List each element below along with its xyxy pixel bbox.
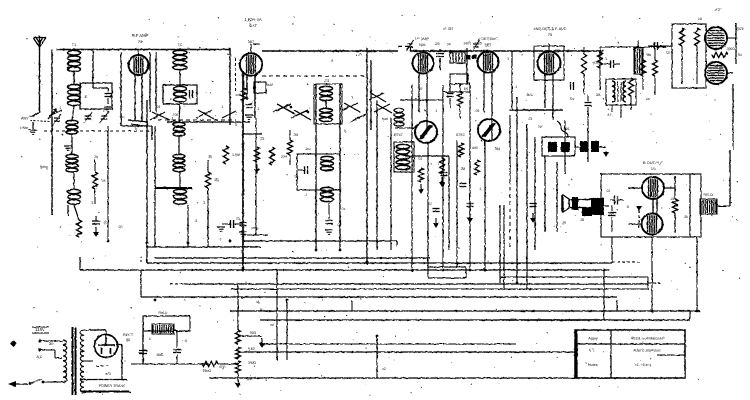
svg-text:6B7: 6B7 xyxy=(485,43,492,47)
node osc grid xyxy=(243,104,311,147)
wire bus y247 xyxy=(396,241,398,247)
svg-text:43: 43 xyxy=(738,53,742,57)
wire IFT2 stem xyxy=(484,51,492,140)
resistor R11 xyxy=(640,47,645,90)
svg-text:×1. ÷5 #!‘£: ×1. ÷5 #!‘£ xyxy=(635,363,651,367)
tube V8 label xyxy=(643,160,664,171)
wire vertical x147 xyxy=(146,100,148,263)
svg-text:gang: gang xyxy=(40,165,47,169)
svg-text:B OUTPUT: B OUTPUT xyxy=(643,160,664,165)
box power divider xyxy=(672,24,706,88)
resistor R4 xyxy=(235,88,287,174)
wire bus y241 xyxy=(146,241,397,247)
node diamond mark xyxy=(10,340,17,347)
coil L1 secondary xyxy=(68,84,81,105)
capacitor C6 xyxy=(245,105,260,120)
svg-text:T1: T1 xyxy=(72,43,76,47)
wire vertical x188mid xyxy=(188,205,208,247)
wire bus y311 to output xyxy=(696,237,698,311)
switch S1 wafers xyxy=(49,110,236,120)
svg-text:Notes: Notes xyxy=(588,363,598,367)
wire if vert extra xyxy=(500,205,504,289)
svg-text:457KC: 457KC xyxy=(455,133,465,137)
svg-text:2M: 2M xyxy=(294,133,299,137)
node POWER TRANS label xyxy=(99,384,126,388)
resistor R14 xyxy=(694,28,699,84)
coil L3 xyxy=(66,154,78,172)
wire V1 stem xyxy=(135,50,142,123)
wire vertical x377 xyxy=(371,60,377,250)
svg-text:.05: .05 xyxy=(156,105,161,109)
svg-text:60~: 60~ xyxy=(49,342,55,346)
svg-text:FIELD: FIELD xyxy=(158,311,168,315)
wire bus y297 xyxy=(141,256,617,297)
resistor R16 candohm xyxy=(628,48,643,96)
wire psu right xyxy=(727,23,736,150)
tube V6 (25Z5) xyxy=(705,27,727,49)
box osc lower xyxy=(297,154,340,190)
svg-text:.5M: .5M xyxy=(645,53,651,57)
svg-text:R.F AMP: R.F AMP xyxy=(132,33,149,38)
svg-text:8: 8 xyxy=(185,339,187,343)
node divider taps xyxy=(238,331,262,378)
svg-text:.05: .05 xyxy=(337,223,342,227)
tube V2 (6A7) xyxy=(240,40,262,76)
capacitor C2 xyxy=(92,216,108,225)
tube V1 label xyxy=(132,33,149,44)
svg-text:.02: .02 xyxy=(606,189,611,193)
wire R2 xyxy=(207,160,209,205)
svg-text:(250): (250) xyxy=(251,226,258,230)
svg-text:2 DET-AVC: 2 DET-AVC xyxy=(478,36,498,41)
svg-text:GND: GND xyxy=(20,126,29,130)
resistor R17 xyxy=(672,176,677,233)
svg-text:x2: x2 xyxy=(382,367,386,371)
svg-text:osc: osc xyxy=(306,147,311,151)
resistor R2 xyxy=(205,172,219,188)
svg-text:350Ω: 350Ω xyxy=(248,361,257,365)
svg-text:.02: .02 xyxy=(418,157,423,161)
transformer T5 output xyxy=(591,198,609,215)
svg-text:2M: 2M xyxy=(461,167,466,171)
svg-text:Apply: Apply xyxy=(588,337,598,341)
coil L9 xyxy=(321,156,334,170)
svg-text:1W: 1W xyxy=(538,125,543,129)
switch S4 power xyxy=(8,379,60,387)
node V1 grid cap xyxy=(128,120,148,126)
svg-text:20M: 20M xyxy=(281,155,288,159)
node 115V label xyxy=(32,327,49,333)
table row line1 xyxy=(575,343,685,345)
svg-text:8: 8 xyxy=(149,337,151,341)
coil T3a xyxy=(320,79,333,101)
coil T2 primary xyxy=(173,43,187,70)
svg-text:1407: 1407 xyxy=(463,42,471,46)
svg-text:.1: .1 xyxy=(251,101,254,105)
wire filter bottom xyxy=(131,330,209,364)
svg-text:fld: fld xyxy=(270,323,274,327)
svg-text:300Ω: 300Ω xyxy=(727,47,735,51)
svg-text:ANT: ANT xyxy=(21,116,30,121)
wire to divider xyxy=(218,363,238,365)
ground below C4 xyxy=(217,227,225,231)
svg-text:.1: .1 xyxy=(435,109,438,113)
svg-text:.1: .1 xyxy=(605,57,608,61)
resistor R21 xyxy=(418,146,478,194)
svg-text:.3: .3 xyxy=(91,201,94,205)
wire det thick xyxy=(509,109,563,111)
svg-text:.5M: .5M xyxy=(494,147,500,151)
svg-text:AVC: AVC xyxy=(527,93,534,97)
wire bus right drop xyxy=(612,237,652,311)
svg-text:JR: JR xyxy=(562,221,567,225)
wire conv bottom xyxy=(243,118,268,235)
coil T4b xyxy=(623,81,626,102)
resistor R18 xyxy=(202,361,226,373)
trimmer C11 xyxy=(406,40,413,51)
svg-text:.05: .05 xyxy=(236,217,241,221)
wire bus y262 dashes xyxy=(612,261,640,263)
svg-text:.1: .1 xyxy=(59,225,62,229)
svg-text:6A7: 6A7 xyxy=(249,23,257,28)
transformer T3 osc box xyxy=(314,84,342,124)
transformer T7 power primary xyxy=(63,340,67,382)
trimmer C1 xyxy=(53,114,61,125)
wire bus y289 xyxy=(230,288,648,290)
capacitor C9 xyxy=(239,223,258,237)
resistor R8 xyxy=(474,160,479,175)
transformer T4 box xyxy=(606,79,636,105)
wire plug xyxy=(37,339,63,359)
wire bus y320 xyxy=(260,319,690,321)
svg-text:.3: .3 xyxy=(203,201,206,205)
wire rect xyxy=(80,330,129,391)
tube V5 (75) xyxy=(538,52,561,75)
coil T4a xyxy=(612,81,615,102)
svg-text:1R: 1R xyxy=(214,178,219,182)
svg-text:80: 80 xyxy=(126,338,130,342)
svg-text:...: ... xyxy=(69,233,72,237)
wire left box xyxy=(93,50,156,127)
svg-text:5.5Ω: 5.5Ω xyxy=(248,347,256,351)
svg-text:.02: .02 xyxy=(294,175,299,179)
wire bus verticals xyxy=(108,103,700,360)
capacitor C22 IF xyxy=(447,83,454,108)
svg-text:JR: JR xyxy=(580,218,585,222)
tube V3 label xyxy=(415,36,430,47)
svg-text:.25: .25 xyxy=(670,197,675,201)
svg-text:75: 75 xyxy=(548,32,552,37)
wire bus y283 xyxy=(170,283,648,285)
svg-text:A.C.: A.C. xyxy=(37,355,44,359)
wire field xyxy=(717,150,730,206)
ground bottom xyxy=(235,378,241,388)
coil L5 xyxy=(174,86,187,101)
svg-text:6: 6 xyxy=(239,93,241,97)
capacitor C20 electrolytic xyxy=(139,345,147,364)
capacitor C3 xyxy=(104,88,112,111)
wire bus y270 xyxy=(80,257,610,270)
wire T2 top xyxy=(179,48,181,50)
svg-text:250Ω: 250Ω xyxy=(203,369,212,373)
svg-text:3: 3 xyxy=(507,57,509,61)
wire T7 taps xyxy=(60,330,131,392)
wire vertical x512 xyxy=(511,51,513,110)
wire top bus left xyxy=(56,49,230,51)
box IF lower coil xyxy=(394,142,414,172)
table col line xyxy=(610,330,612,378)
coil T1 primary xyxy=(68,43,81,72)
capacitor C17 xyxy=(604,60,620,68)
IF transformer IFT1 can xyxy=(413,53,434,74)
svg-text:T3: T3 xyxy=(325,79,329,83)
svg-text:.25: .25 xyxy=(260,137,265,141)
svg-text:19: 19 xyxy=(651,167,655,171)
wire gang dashes xyxy=(44,120,236,131)
svg-text:6D6: 6D6 xyxy=(419,43,426,47)
svg-text:.1: .1 xyxy=(219,237,222,241)
svg-text:3: 3 xyxy=(235,123,237,127)
trimmer C12 xyxy=(472,40,479,51)
wire V2 stem xyxy=(247,44,255,118)
wire det drops xyxy=(523,51,557,232)
tube V7 (43) xyxy=(705,62,727,84)
wire coilB links xyxy=(179,70,180,189)
svg-text:.1: .1 xyxy=(479,187,482,191)
svg-text:8MF: 8MF xyxy=(157,353,164,357)
wire if cross xyxy=(395,92,470,128)
svg-text:150: 150 xyxy=(434,42,440,46)
wire bus y283 dashes xyxy=(648,282,660,284)
svg-text:1R: 1R xyxy=(101,179,106,183)
wire filter vert xyxy=(142,331,144,364)
coil L12 xyxy=(396,144,410,169)
ground below L1 xyxy=(64,146,72,150)
wire bus y320 dashes xyxy=(428,267,618,320)
wire vertical x517 xyxy=(510,97,517,283)
capacitor C18 xyxy=(610,196,624,205)
wire psu left xyxy=(648,42,672,50)
svg-text:10: 10 xyxy=(666,51,670,55)
resistor R7 xyxy=(405,156,449,250)
svg-text:pad: pad xyxy=(382,117,388,121)
svg-text:.01: .01 xyxy=(428,202,433,206)
wire bus y311 xyxy=(230,310,700,312)
tube V10 label xyxy=(123,333,134,342)
svg-text:.25: .25 xyxy=(528,117,533,121)
wire bus y277 xyxy=(500,276,648,278)
variable capacitor C5 gang xyxy=(84,112,109,123)
table row line2 xyxy=(657,354,685,356)
wire vertical x367 xyxy=(366,48,368,264)
svg-text:23: 23 xyxy=(358,53,362,57)
wire vertical x391 xyxy=(390,118,392,250)
tube V3b circle xyxy=(415,121,437,143)
antenna xyxy=(33,36,46,112)
svg-text:.1: .1 xyxy=(221,105,224,109)
coil L10 xyxy=(321,187,334,201)
svg-text:.02: .02 xyxy=(118,225,123,229)
svg-text:90Ω: 90Ω xyxy=(250,331,257,335)
wire bottom left join xyxy=(68,205,96,220)
table frame xyxy=(575,330,685,378)
capacitor C24 xyxy=(467,195,474,223)
svg-text:1.5M: 1.5M xyxy=(232,153,240,157)
svg-text:.1: .1 xyxy=(515,85,518,89)
svg-text:50M: 50M xyxy=(267,83,274,87)
svg-text:.0001: .0001 xyxy=(172,113,180,117)
svg-text:6: 6 xyxy=(344,129,346,133)
wire bottom long xyxy=(209,336,612,378)
svg-text:.05: .05 xyxy=(341,207,346,211)
capacitor C10 xyxy=(436,48,477,84)
svg-text:.006: .006 xyxy=(563,127,569,131)
tube V4b circle xyxy=(478,119,500,141)
wire V5 stem xyxy=(545,44,553,120)
wire output internals xyxy=(628,174,690,237)
wire vertical x52 xyxy=(51,50,53,216)
tube V10 (80) rectifier xyxy=(95,335,118,358)
tube V9 (19) lower xyxy=(642,214,663,235)
coil T3b xyxy=(320,108,333,121)
table text r3c1 xyxy=(588,363,598,367)
svg-text:115V: 115V xyxy=(35,327,45,332)
transformer T7 core xyxy=(73,327,76,395)
svg-text:T2: T2 xyxy=(178,43,182,47)
resistor R19 divider xyxy=(235,284,240,373)
wire vertical x230 xyxy=(229,48,231,125)
wire osc links xyxy=(316,84,340,250)
wire vert x565 xyxy=(565,118,588,174)
capacitor C19 xyxy=(608,205,616,232)
tube V8 (19) upper xyxy=(642,177,664,199)
capacitor C25 xyxy=(530,204,537,224)
wire avc dash xyxy=(262,75,366,77)
svg-text:.5: .5 xyxy=(195,219,198,223)
svg-text:b: b xyxy=(135,127,137,131)
transformer T6 field xyxy=(700,193,717,214)
svg-text:A.F.: A.F. xyxy=(607,113,613,117)
wire IFT1 stem xyxy=(419,51,427,130)
switch S5 diagonals xyxy=(369,93,392,113)
svg-text:.1: .1 xyxy=(305,193,308,197)
svg-text:40111 mod Mæcon-P: 40111 mod Mæcon-P xyxy=(631,337,665,341)
svg-text:.1: .1 xyxy=(59,106,62,110)
node ANT label xyxy=(21,116,30,121)
wire vertical x523 xyxy=(527,124,535,290)
box V5 shield xyxy=(534,46,564,80)
svg-text:FIELD: FIELD xyxy=(703,193,713,197)
wire right drops xyxy=(648,289,652,352)
svg-text:.1: .1 xyxy=(257,107,260,111)
svg-text:25: 25 xyxy=(94,155,98,159)
wire top bus right xyxy=(253,44,604,51)
box T2 shield xyxy=(163,85,197,104)
ground below C2 xyxy=(93,227,99,237)
tube V1 (78) xyxy=(129,55,149,75)
svg-text:457KC: 457KC xyxy=(393,133,403,137)
wire speaker link xyxy=(586,199,602,203)
node junction dots xyxy=(242,261,487,272)
coil L6 xyxy=(173,122,185,136)
wire vertical x243 xyxy=(236,58,267,268)
wire bus y335 xyxy=(238,321,420,323)
svg-text:5Y3: 5Y3 xyxy=(105,372,111,376)
transformer T7 secondary xyxy=(80,330,84,392)
resistor R20 IF xyxy=(457,83,462,118)
wire antenna to input switch xyxy=(30,108,58,122)
box output stage xyxy=(601,174,701,237)
table text r3c2 xyxy=(635,363,651,367)
capacitor C14 xyxy=(460,184,467,187)
wire T1 top xyxy=(73,48,75,50)
svg-text:35: 35 xyxy=(684,215,688,219)
table text r1c2 xyxy=(631,337,665,341)
svg-text:.5: .5 xyxy=(331,59,334,63)
resistor R6 screen xyxy=(434,42,482,47)
svg-text:.01: .01 xyxy=(570,97,575,101)
wire coilA links xyxy=(72,72,74,189)
table text r2c1 xyxy=(589,349,595,353)
svg-text:250: 250 xyxy=(417,87,423,91)
svg-text:POWER TRANS: POWER TRANS xyxy=(99,384,126,388)
coil L8 xyxy=(174,189,187,204)
wire af links xyxy=(600,47,666,118)
tube V4 label xyxy=(478,36,498,47)
svg-text:ohm: ohm xyxy=(247,377,254,381)
svg-text:2M: 2M xyxy=(596,93,601,97)
capacitor C7 xyxy=(298,166,308,174)
wire mid horizontals xyxy=(121,126,192,188)
svg-text:.1: .1 xyxy=(705,93,708,97)
table text r1c1 xyxy=(588,337,598,341)
svg-text:RECT: RECT xyxy=(123,333,134,337)
svg-text:1.62A-2A: 1.62A-2A xyxy=(244,17,262,22)
resistor R15 xyxy=(712,47,735,58)
switch S2 wafers xyxy=(342,103,366,122)
resistor R1 cathode xyxy=(69,172,106,237)
svg-text:8: 8 xyxy=(627,205,629,209)
svg-text:1M: 1M xyxy=(464,87,469,91)
box mixer grid xyxy=(80,83,112,109)
wire vertical x155 xyxy=(154,126,156,247)
svg-text:1M: 1M xyxy=(646,97,651,101)
svg-text:AOui D.,Ba/4Ucn:: AOui D.,Ba/4Ucn: xyxy=(633,349,661,353)
svg-text:.1: .1 xyxy=(443,175,446,179)
coil L2 xyxy=(66,120,78,134)
capacitor C13 xyxy=(441,143,464,176)
svg-text:6A7: 6A7 xyxy=(248,40,254,44)
svg-text:osc: osc xyxy=(120,115,125,119)
node bus junction dots xyxy=(107,240,699,338)
speaker SP1 xyxy=(562,195,592,222)
resistor R10 xyxy=(597,52,602,68)
ground GND at antenna xyxy=(20,122,37,134)
svg-text:B+: B+ xyxy=(260,308,264,312)
wire candohm xyxy=(622,40,672,110)
wire bus y258 xyxy=(155,257,430,259)
wire bus y263 xyxy=(147,255,612,263)
svg-text:E: E xyxy=(85,94,88,99)
coil L4 xyxy=(68,189,81,204)
svg-text:sp: sp xyxy=(256,300,260,304)
svg-text:S T.: S T. xyxy=(589,349,595,353)
coil L7 xyxy=(173,154,185,171)
wire IF verticals xyxy=(412,83,485,268)
ground divider xyxy=(259,338,265,348)
wire det misc xyxy=(476,47,600,95)
coil L13 xyxy=(394,108,404,126)
